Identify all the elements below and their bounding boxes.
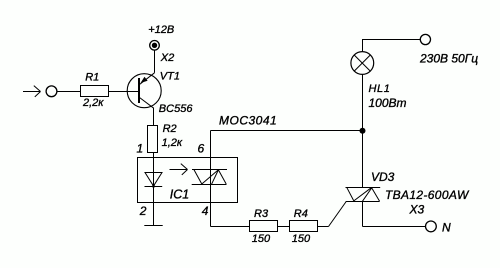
- svg-text:230В 50Гц: 230В 50Гц: [419, 52, 478, 66]
- svg-text:6: 6: [198, 142, 205, 156]
- svg-text:R2: R2: [163, 123, 177, 135]
- svg-text:2: 2: [139, 204, 147, 218]
- svg-text:VD3: VD3: [371, 170, 395, 184]
- svg-text:1,2к: 1,2к: [162, 137, 183, 149]
- svg-text:R3: R3: [254, 208, 269, 220]
- svg-text:N: N: [442, 220, 451, 234]
- svg-text:VT1: VT1: [160, 70, 180, 82]
- svg-text:MOC3041: MOC3041: [219, 113, 277, 127]
- svg-text:150: 150: [292, 233, 311, 245]
- svg-text:1: 1: [137, 142, 144, 156]
- svg-text:R4: R4: [294, 208, 308, 220]
- svg-text:4: 4: [202, 204, 209, 218]
- svg-text:BC556: BC556: [159, 103, 194, 115]
- svg-text:+12В: +12В: [148, 24, 174, 36]
- svg-text:R1: R1: [85, 71, 99, 83]
- svg-text:150: 150: [252, 233, 271, 245]
- svg-text:HL1: HL1: [369, 83, 391, 95]
- svg-text:X3: X3: [409, 203, 425, 217]
- svg-text:2,2к: 2,2к: [82, 97, 104, 109]
- svg-text:TBA12-600AW: TBA12-600AW: [385, 188, 470, 202]
- svg-text:IC1: IC1: [170, 188, 189, 202]
- svg-text:100Вт: 100Вт: [369, 96, 407, 110]
- svg-text:X2: X2: [160, 52, 174, 64]
